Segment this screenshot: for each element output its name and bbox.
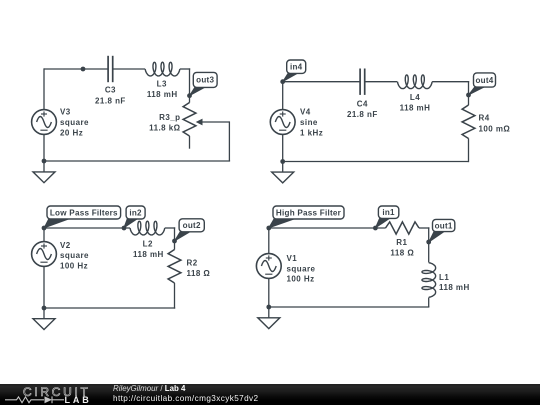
flag Low Pass Filters — [44, 206, 120, 228]
wire R1 to corner — [419, 227, 429, 229]
wire V1 bottom — [268, 278, 270, 307]
svg-text:square: square — [60, 118, 89, 127]
svg-text:100 Hz: 100 Hz — [60, 261, 88, 270]
node out3 junction — [187, 93, 192, 98]
potentiometer R3_p wiper arrow — [196, 119, 203, 126]
svg-text:out1: out1 — [435, 221, 453, 230]
svg-text:21.8 nF: 21.8 nF — [347, 110, 378, 119]
wire L2 to corner — [165, 227, 176, 229]
flag out3 — [190, 72, 217, 95]
wire bottom of top-right loop — [283, 161, 469, 163]
flag in1 — [376, 206, 399, 228]
svg-text:R2: R2 — [187, 259, 198, 268]
wire in4 to C4 — [283, 81, 360, 83]
svg-text:L4: L4 — [410, 93, 420, 102]
voltage source V3 — [32, 110, 57, 135]
junction V4 bottom — [280, 159, 285, 164]
wire bottom of top-left loop — [44, 160, 230, 162]
svg-text:118 mH: 118 mH — [400, 103, 431, 112]
svg-text:High Pass Filter: High Pass Filter — [276, 208, 342, 217]
svg-text:C3: C3 — [105, 86, 116, 95]
CircuitLab logo — [0, 384, 110, 405]
svg-text:out3: out3 — [196, 76, 214, 85]
wire L3 to corner — [180, 68, 190, 70]
node in4 junction — [280, 79, 285, 84]
svg-text:20 Hz: 20 Hz — [60, 129, 83, 138]
wire to V4 top — [282, 81, 284, 110]
wire R4 to bottom — [468, 138, 470, 162]
wire V3 bottom — [43, 134, 45, 161]
wire ground stub V4 — [282, 162, 284, 173]
svg-text:V1: V1 — [287, 254, 298, 263]
wire L1 to bottom — [428, 298, 430, 308]
ground below V1 — [258, 318, 280, 329]
svg-text:V4: V4 — [300, 108, 311, 117]
wire ground stub V3 — [43, 161, 45, 172]
resistor R1 — [386, 222, 420, 234]
svg-text:square: square — [60, 251, 89, 260]
wire corner down to R3_p — [189, 68, 191, 102]
wire V1 top to R1 — [269, 227, 386, 229]
svg-text:21.8 nF: 21.8 nF — [95, 96, 126, 105]
junction V2 bottom — [42, 306, 47, 311]
svg-text:100 Hz: 100 Hz — [287, 275, 315, 284]
wire right side up to wiper — [228, 121, 230, 161]
flag in2 — [124, 206, 145, 228]
logo schematic squiggle: wire, resistor, diode — [5, 396, 64, 403]
footer title and url — [113, 384, 259, 404]
wire R3_p bottom open stub — [189, 136, 191, 149]
wire R2 to bottom — [174, 283, 176, 309]
svg-text:L1: L1 — [439, 273, 449, 282]
wire corner down to R4 — [468, 81, 470, 105]
capacitor C3 — [108, 56, 113, 82]
inductor L3 — [145, 62, 180, 76]
svg-text:LAB: LAB — [65, 395, 92, 405]
voltage source V2 — [32, 242, 57, 267]
flag in4 — [283, 60, 306, 82]
junction on top wire — [81, 67, 86, 72]
inductor L1 — [422, 263, 436, 298]
wire top-left top segment to C3 — [44, 68, 108, 70]
svg-text:C4: C4 — [357, 100, 368, 109]
wire C3 to L3 — [113, 68, 145, 70]
potentiometer R3_p resistor body — [183, 103, 196, 137]
svg-text:out4: out4 — [475, 76, 493, 85]
node out2 junction — [172, 239, 177, 244]
voltage source V4 — [270, 110, 295, 135]
svg-text:in1: in1 — [382, 208, 395, 217]
node junction LPF — [42, 226, 47, 231]
svg-text:118 mH: 118 mH — [133, 250, 164, 259]
voltage source V1 — [256, 254, 281, 279]
svg-text:118 Ω: 118 Ω — [390, 249, 414, 258]
junction V3 bottom — [42, 159, 47, 164]
svg-text:L3: L3 — [157, 80, 167, 89]
svg-text:Low Pass Filters: Low Pass Filters — [50, 208, 118, 217]
resistor R2 — [168, 250, 181, 284]
svg-text:R3_p: R3_p — [159, 113, 180, 122]
wire V4 bottom — [282, 134, 284, 162]
svg-text:118 Ω: 118 Ω — [187, 269, 211, 278]
svg-text:118 mH: 118 mH — [147, 90, 178, 99]
wire V2 top to L2 — [44, 227, 130, 229]
svg-text:L2: L2 — [143, 240, 153, 249]
svg-text:V2: V2 — [60, 241, 71, 250]
wire to V3 top — [43, 68, 45, 110]
flag High Pass Filter — [269, 206, 344, 228]
svg-text:in2: in2 — [129, 208, 142, 217]
wire corner down to R2 — [174, 227, 176, 249]
ground below V2 — [33, 319, 55, 330]
node out4 junction — [466, 93, 471, 98]
capacitor C4 — [360, 69, 365, 95]
node in1 junction — [373, 226, 378, 231]
node in2 junction — [122, 226, 127, 231]
svg-text:R4: R4 — [479, 114, 490, 123]
svg-text:118 mH: 118 mH — [439, 283, 470, 292]
inductor L2 — [130, 221, 165, 235]
wire bottom of bottom-left loop — [44, 307, 175, 309]
svg-text:R1: R1 — [396, 238, 407, 247]
wire corner down to L1 — [428, 227, 430, 262]
resistor R4 — [462, 105, 475, 139]
wire ground stub V2 — [43, 308, 45, 319]
wire to V1 top — [268, 227, 270, 253]
svg-text:in4: in4 — [290, 63, 303, 72]
wire C4 to L4 — [365, 81, 397, 83]
node junction HPF — [266, 226, 271, 231]
wire ground stub V1 — [268, 307, 270, 318]
flag out1 — [429, 219, 455, 242]
inductor L4 — [398, 75, 433, 89]
ground below V3 — [33, 172, 55, 183]
ground below V4 — [272, 172, 294, 183]
svg-text:V3: V3 — [60, 108, 71, 117]
wire bottom of bottom-right loop — [269, 306, 430, 308]
junction V1 bottom — [266, 305, 271, 310]
svg-text:out2: out2 — [183, 221, 201, 230]
wire to V2 top — [43, 227, 45, 242]
wire V2 bottom — [43, 266, 45, 308]
flag out4 — [469, 73, 496, 95]
svg-text:100 mΩ: 100 mΩ — [479, 124, 511, 133]
node out1 junction — [426, 240, 431, 245]
svg-text:sine: sine — [300, 118, 318, 127]
flag out2 — [175, 219, 205, 241]
svg-text:11.8 kΩ: 11.8 kΩ — [149, 124, 181, 133]
wire L4 to corner — [432, 81, 469, 83]
svg-text:1 kHz: 1 kHz — [300, 129, 323, 138]
wire wiper horizontal — [202, 121, 230, 123]
footer bar — [0, 384, 540, 405]
svg-text:square: square — [287, 264, 316, 273]
